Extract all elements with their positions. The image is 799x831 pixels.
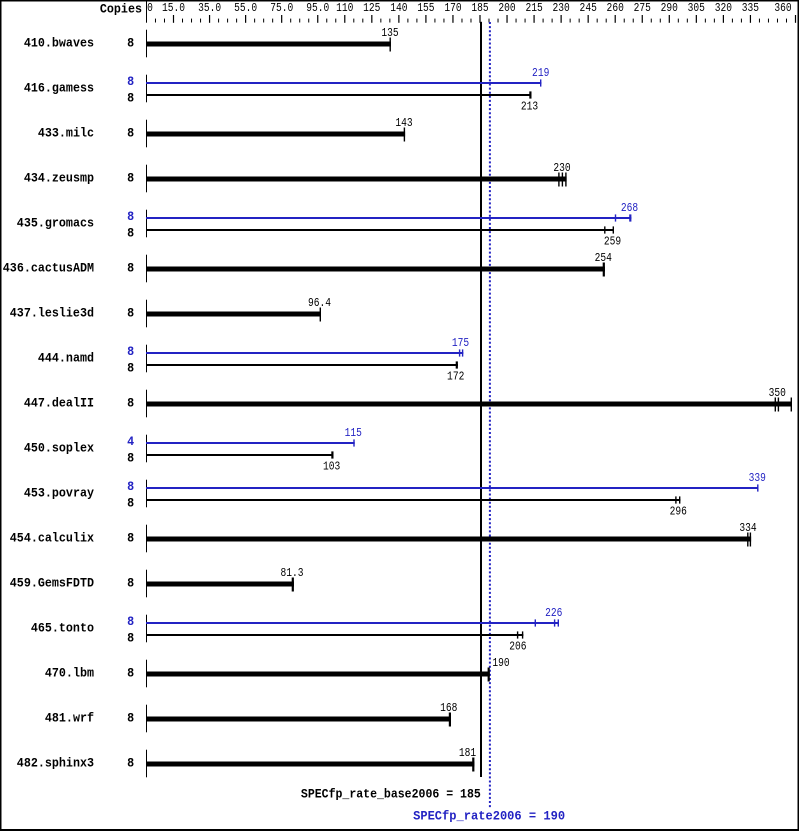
svg-text:453.povray: 453.povray — [24, 486, 95, 501]
svg-text:305: 305 — [688, 2, 705, 15]
svg-text:0: 0 — [147, 2, 153, 15]
axis ticks — [155, 15, 796, 23]
svg-text:334: 334 — [739, 522, 756, 535]
svg-text:335: 335 — [742, 2, 759, 15]
group 459.GemsFDTD — [10, 567, 304, 597]
svg-text:436.cactusADM: 436.cactusADM — [3, 261, 94, 276]
group 447.dealII — [24, 387, 792, 417]
group 454.calculix — [10, 522, 757, 552]
reference line base 185 — [480, 22, 482, 777]
group 481.wrf — [45, 702, 458, 732]
svg-text:8: 8 — [127, 496, 134, 511]
svg-text:8: 8 — [127, 361, 134, 376]
svg-text:8: 8 — [127, 261, 134, 276]
svg-text:435.gromacs: 435.gromacs — [17, 216, 94, 231]
svg-text:55.0: 55.0 — [234, 2, 257, 15]
svg-text:8: 8 — [127, 711, 134, 726]
reference line peak 190 (blue dotted) — [489, 22, 491, 808]
svg-text:350: 350 — [769, 387, 786, 400]
svg-text:140: 140 — [390, 2, 407, 15]
svg-text:433.milc: 433.milc — [38, 126, 94, 141]
svg-text:8: 8 — [127, 344, 134, 359]
svg-text:481.wrf: 481.wrf — [45, 711, 94, 726]
group 450.soplex — [24, 427, 362, 474]
svg-text:360: 360 — [774, 2, 791, 15]
svg-text:8: 8 — [127, 614, 134, 629]
svg-text:482.sphinx3: 482.sphinx3 — [17, 756, 94, 771]
svg-text:95.0: 95.0 — [306, 2, 329, 15]
border frame — [0, 0, 799, 2]
svg-text:135: 135 — [381, 27, 398, 40]
svg-text:470.lbm: 470.lbm — [45, 666, 94, 681]
svg-text:437.leslie3d: 437.leslie3d — [10, 306, 94, 321]
svg-text:444.namd: 444.namd — [38, 351, 94, 366]
svg-text:296: 296 — [670, 506, 687, 519]
svg-text:8: 8 — [127, 576, 134, 591]
svg-text:8: 8 — [127, 531, 134, 546]
svg-text:450.soplex: 450.soplex — [24, 441, 95, 456]
svg-text:8: 8 — [127, 209, 134, 224]
svg-text:320: 320 — [715, 2, 732, 15]
svg-text:230: 230 — [552, 2, 569, 15]
svg-text:447.dealII: 447.dealII — [24, 396, 94, 411]
svg-text:465.tonto: 465.tonto — [31, 621, 94, 636]
svg-text:8: 8 — [127, 126, 134, 141]
svg-text:170: 170 — [444, 2, 461, 15]
svg-text:SPECfp_rate_base2006 = 185: SPECfp_rate_base2006 = 185 — [301, 787, 481, 802]
svg-text:339: 339 — [749, 472, 766, 485]
group 435.gromacs — [17, 202, 638, 249]
svg-text:168: 168 — [440, 702, 457, 715]
svg-text:416.gamess: 416.gamess — [24, 81, 94, 96]
svg-text:459.GemsFDTD: 459.GemsFDTD — [10, 576, 94, 591]
svg-text:8: 8 — [127, 171, 134, 186]
svg-text:8: 8 — [127, 74, 134, 89]
svg-text:8: 8 — [127, 451, 134, 466]
svg-text:143: 143 — [395, 117, 412, 130]
svg-text:219: 219 — [532, 67, 549, 80]
svg-text:125: 125 — [363, 2, 380, 15]
svg-text:454.calculix: 454.calculix — [10, 531, 95, 546]
svg-text:181: 181 — [459, 747, 476, 760]
group 436.cactusADM — [3, 252, 612, 282]
svg-text:8: 8 — [127, 91, 134, 106]
svg-text:434.zeusmp: 434.zeusmp — [24, 171, 94, 186]
svg-text:8: 8 — [127, 396, 134, 411]
svg-text:254: 254 — [595, 252, 612, 265]
axis tick labels — [147, 2, 792, 15]
svg-text:410.bwaves: 410.bwaves — [24, 36, 94, 51]
svg-text:185: 185 — [471, 2, 488, 15]
svg-text:81.3: 81.3 — [280, 567, 303, 580]
svg-text:190: 190 — [492, 657, 509, 670]
svg-text:155: 155 — [417, 2, 434, 15]
svg-text:206: 206 — [509, 641, 526, 654]
svg-text:8: 8 — [127, 756, 134, 771]
svg-text:8: 8 — [127, 666, 134, 681]
svg-text:245: 245 — [580, 2, 597, 15]
svg-text:230: 230 — [553, 162, 570, 175]
svg-text:275: 275 — [634, 2, 651, 15]
svg-text:172: 172 — [447, 371, 464, 384]
svg-text:200: 200 — [498, 2, 515, 15]
group 444.namd — [38, 337, 469, 384]
svg-text:8: 8 — [127, 631, 134, 646]
svg-text:213: 213 — [521, 101, 538, 114]
svg-text:35.0: 35.0 — [198, 2, 221, 15]
group 434.zeusmp — [24, 162, 571, 192]
svg-text:259: 259 — [604, 236, 621, 249]
group 437.leslie3d — [10, 297, 331, 327]
svg-text:SPECfp_rate2006 = 190: SPECfp_rate2006 = 190 — [413, 809, 565, 824]
svg-text:215: 215 — [525, 2, 542, 15]
svg-text:75.0: 75.0 — [270, 2, 293, 15]
group 433.milc — [38, 117, 413, 147]
svg-text:Copies: Copies — [100, 2, 142, 17]
svg-text:110: 110 — [336, 2, 353, 15]
axis line top — [146, 2, 147, 23]
group 416.gamess — [24, 67, 550, 114]
svg-text:8: 8 — [127, 36, 134, 51]
group 470.lbm — [45, 657, 510, 687]
svg-text:290: 290 — [661, 2, 678, 15]
svg-text:96.4: 96.4 — [308, 297, 331, 310]
group 482.sphinx3 — [17, 747, 476, 777]
svg-text:15.0: 15.0 — [162, 2, 185, 15]
group 465.tonto — [31, 607, 563, 654]
svg-text:260: 260 — [607, 2, 624, 15]
svg-text:4: 4 — [127, 434, 135, 449]
svg-text:175: 175 — [452, 337, 469, 350]
svg-text:8: 8 — [127, 306, 134, 321]
group 410.bwaves — [24, 27, 399, 57]
svg-text:226: 226 — [545, 607, 562, 620]
svg-text:8: 8 — [127, 479, 134, 494]
svg-text:103: 103 — [323, 461, 340, 474]
svg-text:268: 268 — [621, 202, 638, 215]
group 453.povray — [24, 472, 766, 519]
svg-text:115: 115 — [345, 427, 362, 440]
svg-text:8: 8 — [127, 226, 134, 241]
